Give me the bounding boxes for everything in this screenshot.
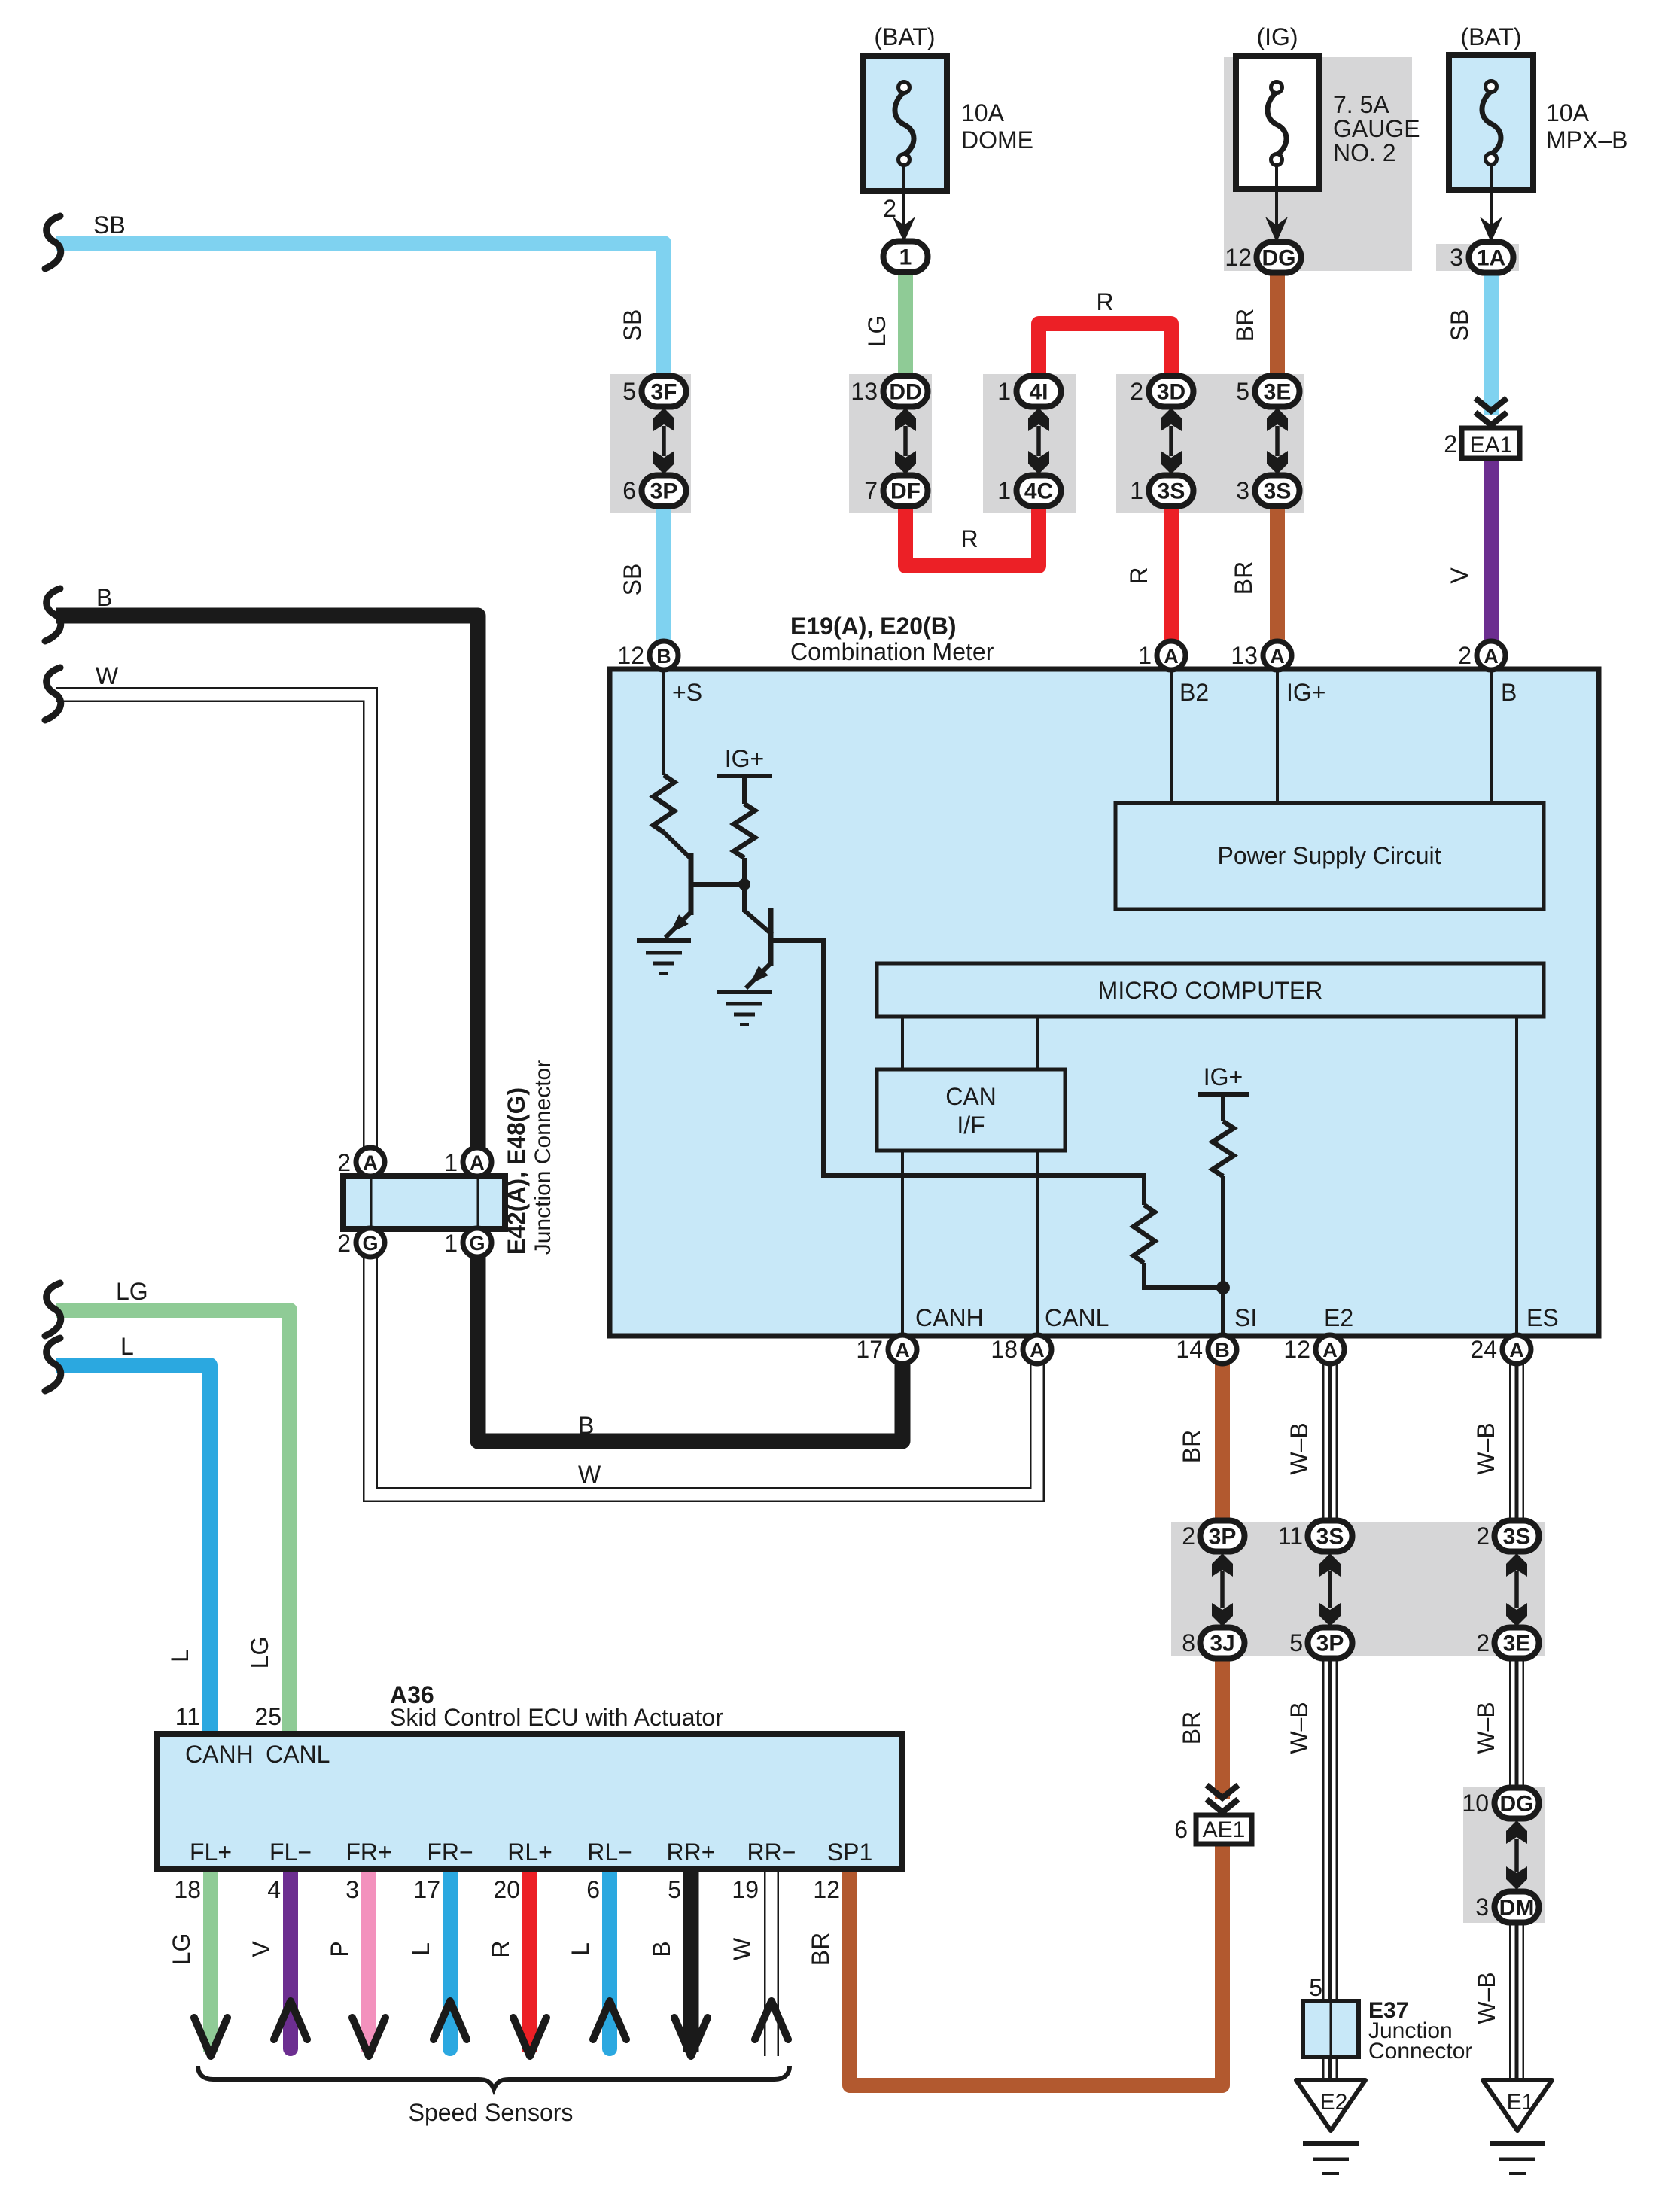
svg-text:CANH: CANH [915,1304,984,1331]
svg-text:Connector: Connector [1368,2039,1472,2064]
label E2 meter [1324,1304,1353,1331]
connector oval 3S mid2 [1495,1521,1539,1552]
pin 2 label 3D [1130,378,1143,405]
terminal 1 A junction [444,1148,492,1176]
micro computer box [877,963,1544,1017]
wire W-B meter 12-A to connector 3S [1322,1364,1338,1524]
label LG vertical A36 [246,1637,273,1669]
terminal 1 A meter [1138,641,1185,670]
svg-text:Power Supply Circuit: Power Supply Circuit [1218,842,1441,869]
wire V EA1 to meter 2-A [1484,456,1499,647]
pin 5 label 3P mid2 [1289,1629,1303,1656]
pin 3 label DM [1475,1893,1489,1921]
svg-text:A: A [895,1339,910,1361]
connector oval 3S right [1255,476,1300,506]
svg-text:B: B [656,645,671,668]
svg-text:BR: BR [1178,1430,1205,1463]
svg-text:BR: BR [807,1933,834,1966]
pin 25 label CANL [254,1703,282,1730]
arrow 3P-3J [1212,1553,1233,1626]
svg-text:RL−: RL− [587,1839,632,1866]
pin 3 label 3S [1236,477,1249,504]
svg-text:MICRO COMPUTER: MICRO COMPUTER [1098,977,1323,1004]
label BR vertical lower [1230,561,1257,595]
label W left [96,662,119,689]
transistor Q2 base bar [768,908,774,966]
svg-text:A: A [363,1151,378,1174]
label A36 [390,1681,434,1708]
svg-text:A: A [1484,645,1499,668]
connector 1A gray strip [1436,244,1519,271]
lead IG+ to R2 [742,776,747,804]
connector EA1 [1462,428,1520,458]
chevrons AE1 [1207,1785,1238,1812]
arrow RL+ down [513,2018,546,2056]
connector oval DD [884,376,928,407]
wire B battery to junction connector A [56,616,478,1155]
connector block DG/DM shield [1463,1787,1545,1923]
svg-text:E42(A), E48(G): E42(A), E48(G) [503,1087,530,1255]
svg-text:W–B: W–B [1473,1972,1500,2024]
label 10A DOME [961,99,1033,154]
wire CANL internal [1036,1151,1039,1336]
svg-text:B: B [96,584,112,611]
pin 2 fuse DOME [883,195,896,222]
svg-text:3P: 3P [1316,1632,1344,1656]
svg-text:A: A [1322,1339,1338,1361]
pin 1 label 4I [997,378,1011,405]
arrow 3D-3S [1161,408,1182,474]
wire L skid ECU FR- [443,1869,458,2049]
label W-B below 24A [1472,1422,1499,1474]
svg-text:6: 6 [586,1876,600,1903]
resistor R4 [1213,1121,1234,1176]
svg-text:L: L [120,1333,134,1360]
label LG vertical [863,315,890,348]
arrow RR- up [755,2001,788,2039]
pin 2 label EA1 [1444,430,1457,458]
svg-text:20: 20 [493,1876,520,1903]
resistor R3 [1134,1205,1155,1263]
arrow FR+ down [352,2018,385,2056]
svg-text:7. 5A: 7. 5A [1333,91,1389,118]
IG+ rail right [1198,1092,1249,1097]
svg-text:LG: LG [168,1933,195,1966]
pin 12 label DG [1225,244,1252,271]
svg-text:V: V [248,1941,275,1957]
svg-text:1: 1 [1138,642,1152,669]
pin 3 label 1A [1450,244,1463,271]
wire W junction G to meter 18-A CANL [370,1258,1037,1495]
svg-text:2: 2 [1182,1522,1195,1550]
label (BAT) DOME [874,23,935,50]
wire Q2 collector to resistor R3 [772,941,1144,1205]
label B2 [1179,679,1209,706]
svg-text:10A: 10A [961,99,1005,126]
svg-text:NO. 2: NO. 2 [1333,139,1396,166]
wire micro to CAN IF right [1036,1017,1039,1069]
svg-text:12: 12 [617,642,644,669]
wire BR fuse GAUGE DG to connector 3E [1270,265,1285,384]
labels A36 bottom pins [190,1839,872,1866]
svg-text:5: 5 [1309,1974,1322,2001]
terminal 14 B meter [1176,1335,1237,1364]
wire B skid ECU RR+ [683,1869,699,2052]
ground E1 [1483,2080,1552,2131]
wire R connector DF to 4C [905,493,1039,566]
combination meter box [610,669,1599,1336]
svg-text:AE1: AE1 [1203,1817,1246,1842]
svg-text:B: B [1501,679,1517,706]
connector AE1 [1196,1815,1252,1844]
svg-text:E19(A), E20(B): E19(A), E20(B) [790,613,957,640]
svg-text:1: 1 [997,477,1011,504]
svg-text:13: 13 [851,378,878,405]
svg-text:DF: DF [890,479,921,504]
ground symbol E1 [1490,2143,1545,2173]
fuse GAUGE symbol [1268,82,1286,166]
svg-text:CANH: CANH [185,1741,254,1768]
svg-text:B: B [1215,1339,1230,1361]
svg-text:(BAT): (BAT) [874,23,935,50]
svg-text:DG: DG [1262,246,1296,271]
svg-text:W–B: W–B [1286,1422,1313,1474]
label IG+ internal right [1204,1063,1243,1090]
wire BR AE1 to skid ECU SP1 [850,1842,1222,2085]
fuse MPX-B symbol [1482,81,1501,165]
terminal 2 A junction [337,1148,385,1176]
label Skid Control ECU with Actuator [390,1704,723,1731]
wire +S internal [662,670,665,775]
svg-text:17: 17 [856,1336,883,1363]
svg-text:IG+: IG+ [725,745,764,772]
terminal 2 G junction [337,1228,385,1257]
svg-text:2: 2 [1476,1522,1490,1550]
label B mid [578,1412,594,1439]
connector block 3D/3S 3E/3S shield [1116,374,1304,513]
label SB vertical lower [619,564,646,596]
svg-text:3S: 3S [1264,479,1292,504]
label B left [96,584,112,611]
label E42(A) E48(G) [503,1087,530,1255]
pin 2 label 3E mid [1476,1629,1490,1656]
connector oval 3P [642,476,686,506]
svg-text:LG: LG [246,1637,273,1669]
svg-text:Combination Meter: Combination Meter [790,638,994,665]
node SI [1216,1281,1230,1294]
svg-text:A: A [470,1151,485,1174]
svg-text:MPX–B: MPX–B [1546,126,1627,154]
svg-text:25: 25 [254,1703,282,1730]
svg-text:A: A [1509,1339,1524,1361]
IG+ rail left [717,774,772,778]
terminal 12 B meter [617,641,678,670]
arrow RR+ down [674,2018,708,2056]
svg-text:10A: 10A [1546,99,1590,126]
wire node to Q2 base [744,911,772,935]
svg-text:CAN: CAN [945,1083,997,1110]
svg-text:DG: DG [1500,1792,1534,1817]
transistor Q1 base bar [689,853,694,915]
svg-text:P: P [326,1941,353,1957]
fuse GAUGE gray backdrop [1224,57,1412,271]
wire BR connector 3J to AE1 [1215,1656,1230,1799]
connector oval DG2 [1495,1788,1539,1819]
svg-text:Junction Connector: Junction Connector [531,1060,555,1255]
svg-text:BR: BR [1231,309,1258,342]
pin 5 label 3F [622,378,636,405]
svg-text:BR: BR [1178,1711,1205,1744]
arrow 4I-4C [1028,408,1049,474]
svg-text:Skid Control ECU with Actuator: Skid Control ECU with Actuator [390,1704,723,1731]
svg-text:DD: DD [889,380,921,405]
label R vertical [1125,567,1152,584]
svg-text:GAUGE: GAUGE [1333,115,1420,142]
arrow DD-DF [895,408,916,474]
svg-text:1: 1 [444,1149,458,1176]
fuse GAUGE box [1236,56,1319,189]
label E19(A) E20(B) [790,613,957,640]
wire L to skid ECU CANH [56,1365,210,1734]
pin 1 label 3S [1130,477,1143,504]
lead fuse DOME [902,164,905,226]
ground symbol E2 [1303,2143,1359,2173]
svg-text:FL+: FL+ [190,1839,232,1866]
skid control ECU box A36 [157,1734,902,1869]
fuse 10A DOME box [863,56,947,191]
svg-text:1: 1 [444,1230,458,1257]
transistor Q2 emitter [746,963,771,988]
label BR below 14B [1178,1430,1205,1463]
label Combination Meter [790,638,994,665]
pin 8 label 3J [1182,1629,1195,1656]
pin 2 label 3P mid [1182,1522,1195,1550]
wire BR meter 14-B to connector 3P [1215,1364,1230,1524]
connector oval 3E [1255,376,1300,407]
connector oval 3E mid [1495,1628,1539,1659]
svg-text:2: 2 [1476,1629,1490,1656]
label R horizontal bottom [960,525,978,552]
power supply circuit box [1115,803,1544,909]
wire R connector 3S to meter 1-A [1164,493,1179,647]
label SB left [93,211,126,239]
label L left [120,1333,134,1360]
label BR below 3J [1178,1711,1205,1744]
break L [45,1338,61,1391]
label IG+ top [1286,679,1325,706]
wire colour labels A36 bottom [168,1933,834,1966]
connector oval 3J [1201,1628,1245,1659]
svg-text:4C: 4C [1024,479,1053,504]
svg-text:W–B: W–B [1472,1702,1499,1754]
svg-text:1: 1 [1130,477,1143,504]
svg-text:DM: DM [1499,1896,1535,1921]
wire LG to skid ECU CANL [56,1310,290,1734]
pin 11 label 3S mid [1278,1522,1303,1550]
svg-text:G: G [469,1232,485,1255]
break B [45,589,61,641]
svg-text:18: 18 [174,1876,201,1903]
svg-text:E2: E2 [1324,1304,1353,1331]
wire CANH internal [901,1151,904,1336]
svg-text:1: 1 [997,378,1011,405]
chevrons EA1 [1475,398,1507,425]
arrow 3F-3P [653,408,674,474]
label (IG) [1256,23,1298,50]
arrow into connector 1 [893,217,915,242]
svg-text:G: G [362,1232,378,1255]
label SB vertical MPX [1446,309,1473,342]
connector oval 3S mid [1308,1521,1353,1552]
svg-text:4I: 4I [1029,380,1048,405]
svg-text:8: 8 [1182,1629,1195,1656]
svg-text:13: 13 [1231,642,1258,669]
wire W to junction connector A [56,695,370,1155]
svg-text:+S: +S [672,679,702,706]
svg-text:12: 12 [1225,244,1252,271]
arrow into connector 1A [1480,217,1502,242]
connector oval 4I [1017,376,1061,407]
svg-text:(BAT): (BAT) [1460,23,1521,50]
svg-text:SI: SI [1234,1304,1257,1331]
label SI [1234,1304,1257,1331]
resistor R1 on +S [653,775,674,832]
connector oval 4C [1017,476,1061,506]
terminal 2 A meter [1458,641,1505,670]
label ES meter [1526,1304,1559,1331]
svg-text:R: R [960,525,978,552]
label CANL A36 [266,1741,330,1768]
label CANL [1045,1304,1109,1331]
connector oval DM [1495,1892,1539,1923]
junction connector box E42/E48 [343,1176,505,1229]
ground E2 [1296,2080,1365,2131]
arrow FL+ down [194,2018,227,2056]
svg-text:5: 5 [668,1876,681,1903]
svg-text:V: V [1446,567,1473,584]
label 10A MPX-B [1546,99,1627,154]
svg-text:SB: SB [1446,309,1473,342]
wire V skid ECU FL- [283,1869,298,2049]
wire W skid ECU RR- [764,1869,779,2056]
svg-text:2: 2 [883,195,896,222]
resistor R2 [734,804,755,858]
svg-text:R: R [1096,288,1113,315]
arrow DG-DM [1506,1820,1527,1890]
wire Q1 base to node [691,882,744,887]
break LG [45,1283,61,1336]
svg-text:CANL: CANL [266,1741,330,1768]
svg-text:IG+: IG+ [1204,1063,1243,1090]
terminal 17 A meter [856,1335,917,1364]
arrow FL- up [274,2001,307,2039]
arrow FR- up [434,2001,467,2039]
svg-text:3P: 3P [1209,1525,1237,1550]
wire BR connector 3S to meter 13-A [1270,493,1285,647]
terminal 24 A meter [1470,1335,1531,1364]
label IG+ internal left [725,745,764,772]
svg-text:SP1: SP1 [827,1839,872,1866]
svg-text:2: 2 [1130,378,1143,405]
svg-text:1A: 1A [1477,246,1505,271]
svg-text:2: 2 [337,1230,351,1257]
wire R1 to Q1 collector [664,832,691,859]
svg-text:LG: LG [116,1278,148,1305]
pin 1 label 4C [997,477,1011,504]
label W-B below 3E [1472,1702,1499,1754]
wire W-B connector DM to ground E1 [1509,1919,1524,2080]
svg-text:7: 7 [864,477,878,504]
node Q1-Q2 [738,878,750,890]
label W-B below 3P [1286,1702,1313,1754]
connector oval 3D [1149,376,1194,407]
label LG left [116,1278,148,1305]
wire IG+ internal [1276,670,1279,803]
connector block 3P/3J 3S/3P 3S/3E shield [1171,1522,1545,1656]
svg-text:A: A [1270,645,1285,668]
svg-text:W: W [578,1461,601,1488]
svg-text:SB: SB [619,309,646,342]
label V vertical [1446,567,1473,584]
pin 5 label 3E [1236,378,1249,405]
svg-text:12: 12 [1283,1336,1310,1363]
lead fuse GAUGE [1275,164,1278,226]
svg-text:LG: LG [863,315,890,348]
svg-text:FL−: FL− [269,1839,312,1866]
svg-text:11: 11 [175,1703,200,1730]
svg-text:ES: ES [1526,1304,1559,1331]
wire SI internal [1221,1176,1225,1336]
label CANH A36 [185,1741,254,1768]
pin 13 label DD [851,378,878,405]
wire R3 to SI node [1144,1263,1223,1288]
transistor Q1 emitter [665,912,691,938]
svg-text:3F: 3F [650,380,677,405]
svg-text:W–B: W–B [1472,1422,1499,1474]
svg-text:EA1: EA1 [1470,433,1513,458]
svg-text:B: B [648,1941,675,1957]
label E37 [1368,1998,1408,2023]
wire SB fuse MPX-B 1A to EA1 [1484,265,1499,415]
label B top [1501,679,1517,706]
svg-text:14: 14 [1176,1336,1203,1363]
pin 7 label DF [864,477,878,504]
svg-text:4: 4 [267,1876,281,1903]
brace speed sensors [198,2066,790,2089]
wire micro to CAN IF left [901,1017,904,1069]
break SB [45,216,61,269]
arrow 3E-3S [1267,408,1288,474]
svg-text:E1: E1 [1507,2090,1535,2115]
label Speed Sensors [409,2099,574,2126]
connector oval DF [884,476,928,506]
wire LG fuse DOME to connector DD [898,265,913,384]
label 7.5A GAUGE NO.2 [1333,91,1420,166]
connector oval 1 [884,242,928,272]
svg-text:L: L [166,1649,193,1662]
connector block 3F/3P shield [610,374,691,513]
svg-text:3J: 3J [1210,1632,1234,1656]
pin numbers A36 bottom [174,1876,840,1903]
svg-text:CANL: CANL [1045,1304,1109,1331]
svg-text:1: 1 [899,245,912,270]
wire B internal [1490,670,1493,803]
label +S [672,679,702,706]
svg-text:W–B: W–B [1286,1702,1313,1754]
svg-text:Speed Sensors: Speed Sensors [409,2099,574,2126]
connector oval 3S left [1149,476,1194,506]
svg-text:5: 5 [1236,378,1249,405]
